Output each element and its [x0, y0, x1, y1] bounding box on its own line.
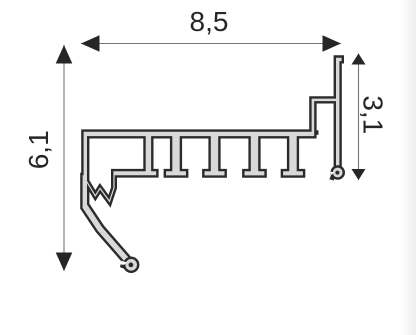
- hook center dots: [129, 263, 134, 268]
- aluminium profile cross-section: [81, 57, 343, 272]
- svg-text:6,1: 6,1: [23, 130, 54, 169]
- dimension line 8,5 (top width): [81, 35, 341, 52]
- dimension line 3,1 (right flange height): [352, 54, 366, 181]
- profile outline: [81, 57, 342, 268]
- dimension line 6,1 (left overall height): [56, 45, 73, 271]
- svg-text:8,5: 8,5: [190, 6, 229, 37]
- left rolled hook: [124, 258, 138, 272]
- right rolled hook: [332, 166, 344, 178]
- left hook roll opening: [121, 261, 127, 266]
- right hook tail: [329, 175, 334, 181]
- svg-text:3,1: 3,1: [357, 95, 388, 134]
- left hook tail: [120, 264, 125, 269]
- right hook roll opening: [330, 172, 334, 176]
